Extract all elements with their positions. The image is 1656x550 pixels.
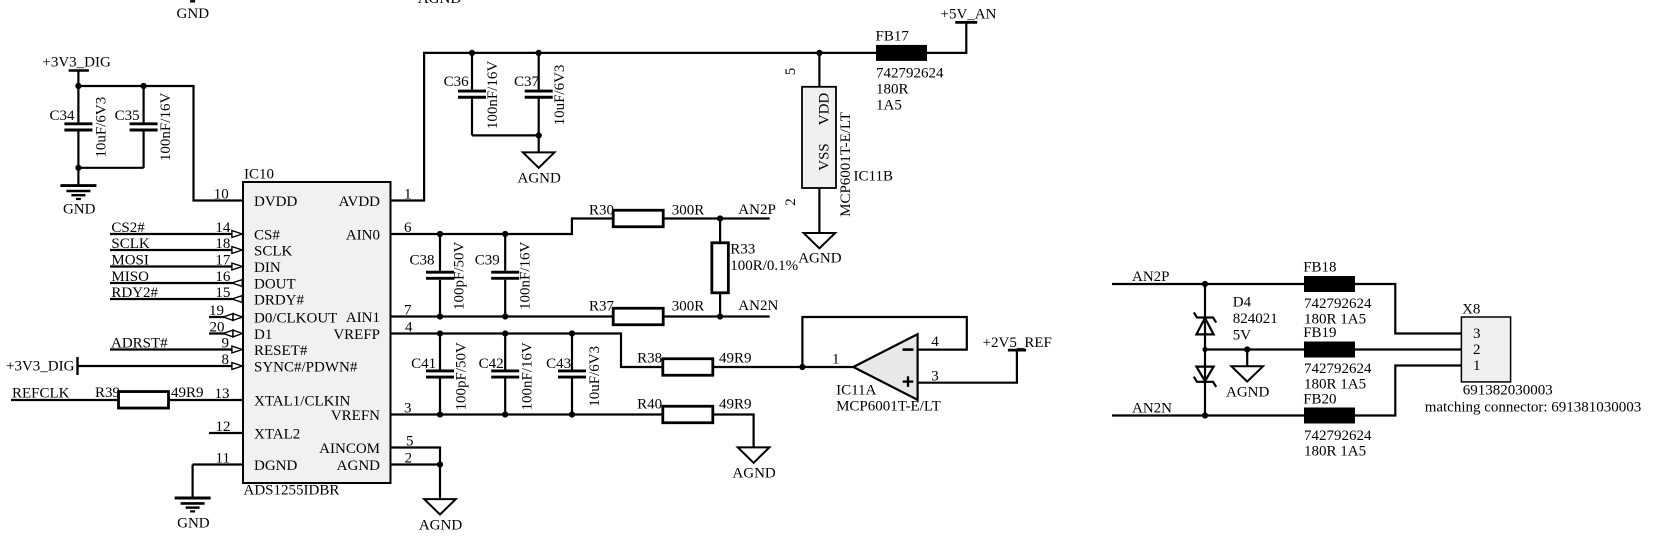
ferrite bead FB20 xyxy=(1304,408,1355,424)
wire pin 4 VREFP to R38 xyxy=(391,334,664,368)
svg-text:CS#: CS# xyxy=(254,228,280,244)
junction op-amp output node xyxy=(799,364,805,370)
svg-text:VREFN: VREFN xyxy=(331,408,380,424)
node pin 11 DGND xyxy=(193,450,243,498)
node AN2N right xyxy=(1112,401,1304,417)
junction AGND tap xyxy=(1244,346,1250,352)
svg-text:RESET#: RESET# xyxy=(254,343,308,359)
wire AGND stub pins 2/5 xyxy=(439,465,441,500)
svg-text:DRDY#: DRDY# xyxy=(254,293,305,309)
wire pin 2 AGND xyxy=(391,463,441,465)
node pin 20 D1 stub xyxy=(209,319,242,337)
capacitor C42 body xyxy=(491,334,519,415)
junction C37 top xyxy=(536,50,542,56)
svg-text:X8: X8 xyxy=(1462,302,1480,318)
svg-text:C34: C34 xyxy=(49,108,75,124)
svg-text:9: 9 xyxy=(222,335,230,351)
wire AGND stub xyxy=(538,135,540,152)
wire pin 3 VREFN to R40 xyxy=(391,413,664,415)
junction IC11B VDD tap xyxy=(816,50,822,56)
svg-text:2: 2 xyxy=(783,198,799,206)
svg-text:MCP6001T-E/LT: MCP6001T-E/LT xyxy=(838,112,854,217)
junction C42 bottom xyxy=(502,411,508,417)
wire pin 3 to +2V5_REF xyxy=(918,350,1017,383)
svg-text:742792624: 742792624 xyxy=(1304,296,1372,312)
svg-text:8: 8 xyxy=(222,352,230,368)
svg-text:1: 1 xyxy=(404,187,412,203)
wire FB18 to X8 pin 3 xyxy=(1355,284,1461,334)
svg-text:IC11A: IC11A xyxy=(836,383,876,399)
svg-text:FB18: FB18 xyxy=(1303,259,1336,275)
svg-text:16: 16 xyxy=(215,269,231,285)
wire R40 to AGND xyxy=(712,415,753,448)
svg-text:C38: C38 xyxy=(409,252,434,268)
svg-text:100nF/16V: 100nF/16V xyxy=(485,61,501,130)
node pin 12 XTAL2 stub xyxy=(209,419,243,435)
svg-text:+3V3_DIG: +3V3_DIG xyxy=(6,359,75,375)
svg-text:MCP6001T-E/LT: MCP6001T-E/LT xyxy=(836,398,941,414)
IC10 left pin names xyxy=(254,194,358,474)
svg-text:20: 20 xyxy=(210,319,225,335)
svg-text:FB19: FB19 xyxy=(1303,325,1336,341)
svg-text:FB20: FB20 xyxy=(1303,391,1336,407)
capacitor C36 body xyxy=(458,53,486,135)
resistor R30 xyxy=(613,210,663,227)
svg-text:+3V3_DIG: +3V3_DIG xyxy=(42,55,111,71)
node ADRST# xyxy=(110,335,242,353)
junction AN2P node xyxy=(717,215,723,221)
svg-text:49R9: 49R9 xyxy=(719,397,752,413)
svg-text:1: 1 xyxy=(1473,358,1481,374)
node pin 19 D0/CLKOUT stub xyxy=(209,303,242,321)
svg-text:AN2N: AN2N xyxy=(1132,401,1172,417)
svg-text:AGND: AGND xyxy=(1226,384,1269,400)
IC10 right pin names xyxy=(319,194,380,474)
svg-text:2: 2 xyxy=(1473,342,1481,358)
svg-text:AN2P: AN2P xyxy=(738,202,776,218)
resistor R39 xyxy=(119,392,169,409)
wire IC11B pin 5 stub xyxy=(818,53,820,87)
junction C41 top xyxy=(437,330,443,336)
svg-text:AIN0: AIN0 xyxy=(346,228,380,244)
power +5V_AN xyxy=(941,6,997,22)
svg-text:691382030003: 691382030003 xyxy=(1463,383,1553,399)
svg-text:AGND: AGND xyxy=(418,0,461,7)
ground AGND below C37 xyxy=(518,152,561,186)
svg-text:VSS: VSS xyxy=(817,143,833,171)
ground GND top clipped symbol xyxy=(177,1,210,22)
svg-text:AGND: AGND xyxy=(798,250,841,266)
junction C36 top xyxy=(469,50,475,56)
power +2V5_REF xyxy=(983,335,1052,351)
node AN2P right xyxy=(1112,269,1304,285)
svg-text:13: 13 xyxy=(215,386,230,402)
node REFCLK xyxy=(11,386,119,402)
svg-text:R39: R39 xyxy=(95,385,120,401)
svg-text:VDD: VDD xyxy=(817,93,833,126)
svg-text:49R9: 49R9 xyxy=(171,385,204,401)
svg-text:C42: C42 xyxy=(479,356,504,372)
wire R33 top lead xyxy=(719,219,721,244)
resistor R38 xyxy=(663,359,713,376)
ground GND below C34 xyxy=(60,186,96,218)
svg-text:3: 3 xyxy=(404,401,412,417)
junction C35 top xyxy=(141,83,147,89)
svg-text:AN2P: AN2P xyxy=(1132,269,1170,285)
wire R39 to pin 13 xyxy=(168,399,243,401)
wire top rail FB17 to +5V_AN xyxy=(927,22,966,53)
svg-text:300R: 300R xyxy=(672,202,705,218)
resistor R37 xyxy=(613,308,663,325)
svg-text:R38: R38 xyxy=(637,350,662,366)
svg-text:15: 15 xyxy=(215,285,230,301)
svg-text:742792624: 742792624 xyxy=(876,65,944,81)
svg-text:C37: C37 xyxy=(514,74,540,90)
junction C38 top xyxy=(437,231,443,237)
svg-text:7: 7 xyxy=(404,303,412,319)
svg-text:14: 14 xyxy=(215,220,231,236)
capacitor C39 body xyxy=(491,234,519,317)
capacitor C35 body xyxy=(130,86,158,168)
svg-text:AGND: AGND xyxy=(732,466,775,482)
svg-text:2: 2 xyxy=(405,451,413,467)
node MISO xyxy=(110,269,242,287)
svg-text:3: 3 xyxy=(931,368,939,384)
wire AVDD pin1 up to top rail xyxy=(391,53,877,201)
svg-text:AVDD: AVDD xyxy=(339,194,381,210)
capacitor C38 body xyxy=(426,234,454,317)
node CS2# xyxy=(110,220,242,238)
svg-text:10uF/6V3: 10uF/6V3 xyxy=(93,97,109,158)
svg-text:742792624: 742792624 xyxy=(1304,428,1372,444)
diode D4 824021 TVS xyxy=(1194,284,1216,416)
svg-text:R30: R30 xyxy=(589,202,614,218)
svg-text:C41: C41 xyxy=(411,356,436,372)
svg-text:+5V_AN: +5V_AN xyxy=(941,6,997,22)
ferrite bead FB18 xyxy=(1304,276,1355,292)
wire feedback to pin 4 xyxy=(802,317,966,367)
wire mid net D4 to X8 pin 2 xyxy=(1205,348,1461,350)
svg-text:AGND: AGND xyxy=(337,458,380,474)
svg-text:R40: R40 xyxy=(637,397,662,413)
svg-text:100pF/50V: 100pF/50V xyxy=(452,241,468,310)
op-amp IC11B power box xyxy=(802,87,836,188)
svg-text:5V: 5V xyxy=(1233,328,1252,344)
wire R30 to AN2P xyxy=(663,217,769,219)
svg-text:19: 19 xyxy=(209,303,224,319)
svg-text:100nF/16V: 100nF/16V xyxy=(520,342,536,411)
svg-text:11: 11 xyxy=(216,450,230,466)
svg-text:XTAL2: XTAL2 xyxy=(254,427,300,443)
svg-text:IC11B: IC11B xyxy=(854,169,893,185)
svg-text:matching connector: 6913810300: matching connector: 691381030003 xyxy=(1425,400,1642,416)
wire pin 7 AIN1 to R37 xyxy=(391,315,614,317)
svg-text:5: 5 xyxy=(406,434,414,450)
svg-text:GND: GND xyxy=(63,201,96,217)
svg-text:180R 1A5: 180R 1A5 xyxy=(1304,443,1366,459)
ground AGND right section xyxy=(1226,366,1269,400)
svg-text:C43: C43 xyxy=(546,356,571,372)
svg-text:DGND: DGND xyxy=(254,458,297,474)
junction C39 top xyxy=(502,231,508,237)
capacitor C41 body xyxy=(426,334,454,415)
wire C34-C35 bottom xyxy=(78,167,143,169)
svg-text:AGND: AGND xyxy=(518,171,561,187)
wire R37 to AN2N xyxy=(663,315,769,317)
junction C42 top xyxy=(502,330,508,336)
svg-text:SYNC#/PDWN#: SYNC#/PDWN# xyxy=(254,360,358,376)
svg-text:R37: R37 xyxy=(589,299,615,315)
wire +3V3 rail to DVDD pin 10 xyxy=(78,86,243,201)
junction C41 bottom xyxy=(437,411,443,417)
capacitor C37 body xyxy=(525,53,553,135)
power +3V3_DIG top-left xyxy=(42,55,111,86)
svg-text:SCLK: SCLK xyxy=(254,244,293,260)
svg-text:180R: 180R xyxy=(876,81,909,97)
svg-text:49R9: 49R9 xyxy=(719,350,752,366)
junction C34 bottom / GND xyxy=(75,165,81,171)
svg-text:ADS1255IDBR: ADS1255IDBR xyxy=(244,483,340,499)
svg-text:C39: C39 xyxy=(475,252,500,268)
ground GND below pin 11 xyxy=(175,498,211,532)
wire pin 6 AIN0 to R30 xyxy=(391,219,614,235)
svg-text:DOUT: DOUT xyxy=(254,277,296,293)
junction C39 bottom xyxy=(502,313,508,319)
svg-text:GND: GND xyxy=(177,6,210,22)
resistor R40 xyxy=(663,406,713,423)
svg-text:GND: GND xyxy=(177,516,210,532)
svg-text:3: 3 xyxy=(1473,326,1481,342)
svg-text:R33: R33 xyxy=(730,242,755,258)
op-amp plus input mark xyxy=(903,376,914,387)
junction C38 bottom xyxy=(437,313,443,319)
svg-text:IC10: IC10 xyxy=(244,166,274,182)
svg-text:1A5: 1A5 xyxy=(876,97,902,113)
junction D4 top xyxy=(1202,281,1208,287)
resistor R33 xyxy=(712,243,729,293)
svg-text:4: 4 xyxy=(931,334,939,350)
svg-text:VREFP: VREFP xyxy=(333,327,380,343)
junction D4 bottom xyxy=(1202,412,1208,418)
svg-text:AIN1: AIN1 xyxy=(346,310,380,326)
svg-text:D0/CLKOUT: D0/CLKOUT xyxy=(254,311,337,327)
op-amp IC11A triangle xyxy=(853,334,917,400)
wire pin 5 AINCOM down xyxy=(391,448,441,465)
capacitor C34 body xyxy=(64,86,92,168)
junction C43 top xyxy=(569,330,575,336)
svg-text:D4: D4 xyxy=(1233,294,1252,310)
svg-text:4: 4 xyxy=(405,320,413,336)
node RDY2# xyxy=(110,285,242,303)
svg-text:+2V5_REF: +2V5_REF xyxy=(983,335,1052,351)
svg-text:C35: C35 xyxy=(115,108,140,124)
junction C37 bottom / AGND xyxy=(536,132,542,138)
svg-text:100R/0.1%: 100R/0.1% xyxy=(730,258,798,274)
svg-text:C36: C36 xyxy=(444,74,470,90)
ground AGND below IC10 xyxy=(419,499,462,533)
wire R33 bottom lead xyxy=(719,293,721,317)
svg-text:824021: 824021 xyxy=(1233,311,1278,327)
ferrite bead FB19 xyxy=(1304,342,1355,358)
wire R38 to op-amp xyxy=(712,366,853,368)
junction +3V3/C34 xyxy=(75,83,81,89)
wire C36-C37 bottom xyxy=(472,134,539,136)
ferrite bead FB17 xyxy=(876,45,927,61)
junction D4 mid xyxy=(1202,347,1207,352)
svg-text:100pF/50V: 100pF/50V xyxy=(453,342,469,411)
svg-text:6: 6 xyxy=(404,220,412,236)
power +3V3_DIG at pin 8 xyxy=(6,352,242,375)
svg-text:180R 1A5: 180R 1A5 xyxy=(1304,376,1366,392)
wire AGND stub right xyxy=(1246,350,1248,367)
ground AGND below IC11B xyxy=(798,233,841,266)
connector X8 xyxy=(1461,302,1510,382)
svg-text:17: 17 xyxy=(215,252,231,268)
svg-text:AGND: AGND xyxy=(419,517,462,533)
svg-text:100nF/16V: 100nF/16V xyxy=(158,93,174,162)
svg-text:DVDD: DVDD xyxy=(254,194,297,210)
junction pin2/pin5 join xyxy=(437,461,443,467)
wire GND stub xyxy=(77,168,79,186)
wire FB20 to X8 pin 1 xyxy=(1355,366,1461,416)
svg-text:10uF/6V3: 10uF/6V3 xyxy=(587,346,603,407)
op-amp minus input mark xyxy=(903,348,914,351)
capacitor C43 body xyxy=(558,334,586,415)
op-amp IC10 ADS1255IDBR body xyxy=(243,182,391,483)
svg-text:100nF/16V: 100nF/16V xyxy=(518,241,534,310)
node SCLK xyxy=(110,236,242,254)
svg-text:742792624: 742792624 xyxy=(1304,361,1372,377)
svg-text:10uF/6V3: 10uF/6V3 xyxy=(552,65,568,126)
svg-text:AINCOM: AINCOM xyxy=(319,441,380,457)
svg-text:10: 10 xyxy=(214,187,229,203)
svg-text:18: 18 xyxy=(215,236,230,252)
node MOSI xyxy=(110,252,242,270)
svg-text:D1: D1 xyxy=(254,327,272,343)
svg-text:DIN: DIN xyxy=(254,260,281,276)
ground AGND below R40 xyxy=(732,447,775,481)
svg-text:1: 1 xyxy=(832,351,840,367)
wire IC11B pin 2 stub xyxy=(818,188,820,233)
svg-text:5: 5 xyxy=(783,68,799,76)
svg-text:12: 12 xyxy=(216,419,231,435)
svg-text:FB17: FB17 xyxy=(876,29,910,45)
junction AN2N node xyxy=(717,313,723,319)
junction C43 bottom xyxy=(569,411,575,417)
svg-text:300R: 300R xyxy=(672,299,705,315)
svg-text:AN2N: AN2N xyxy=(738,298,778,314)
